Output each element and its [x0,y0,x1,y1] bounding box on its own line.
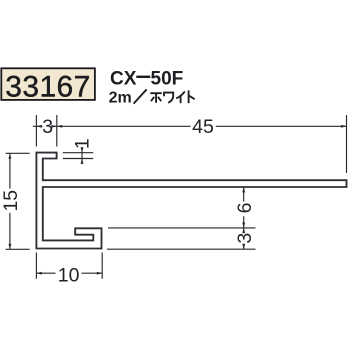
arrow 10 right [97,272,102,275]
dim line 10 right seg [82,272,103,274]
ext line foot bottom [107,248,256,250]
arrow 10 left [36,272,41,275]
kana ho [150,93,162,103]
profile outline [36,153,346,249]
kana wa [164,93,173,103]
arrow 3 top left [36,125,41,128]
arrow 45 left / 3 right [57,125,62,128]
arrow 45 right [341,125,346,128]
dim line 45 right seg [216,125,347,127]
kana to [189,90,195,103]
ext line top mid [56,115,58,147]
subtitle slash [134,89,147,103]
ext line thickness top [63,152,93,154]
kana i [176,91,185,103]
arrow 3 right top [242,228,245,233]
svg-text:1: 1 [71,138,93,149]
arrow 6 bottom [242,223,245,228]
svg-text:3: 3 [42,116,53,138]
svg-text:3: 3 [234,233,256,244]
svg-text:10: 10 [58,264,80,286]
ext line 15 top [6,152,30,154]
ext line top left [35,115,37,147]
ext line top right [346,115,348,173]
dim line 15 upper seg [9,153,11,188]
dim line 3 top [33,125,43,127]
svg-text:15: 15 [0,190,22,212]
dim line 3 right upper seg [243,228,245,233]
svg-text:CX: CX [110,69,137,90]
dim line 10 left seg [36,272,55,274]
arrow 1 upper [81,147,84,152]
ext line 15 bottom [6,248,30,250]
svg-text:2m: 2m [109,89,132,106]
ext line 10 left [35,253,37,279]
ext line thickness bottom [63,158,93,160]
title dash [136,76,150,78]
ext line hook top [108,227,256,229]
svg-text:33167: 33167 [5,70,90,103]
part-number box [1,68,95,100]
svg-text:6: 6 [234,202,256,213]
arrow 3 right bottom [242,244,245,249]
dim line 6 lower seg [243,216,245,228]
arrow 1 lower [81,159,84,164]
svg-text:50F: 50F [151,69,184,90]
dim line 1 [81,147,83,163]
svg-text:45: 45 [192,116,214,138]
dim line 6 upper seg [243,187,245,202]
dim line 15 lower seg [9,213,11,250]
arrow 15 top [8,153,11,158]
arrow 15 bottom [8,244,11,249]
ext line 10 right [101,253,103,279]
dim line 45 left seg [54,125,191,127]
arrow 6 top [242,187,245,192]
dim line 3 right lower seg [243,244,245,249]
